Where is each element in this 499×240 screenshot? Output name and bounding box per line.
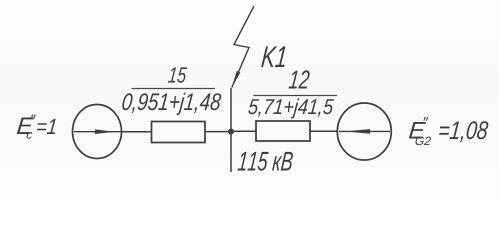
label K1 — [261, 46, 285, 67]
wire W4: resistor Z2 to source G2 — [310, 130, 338, 132]
label Ec E — [17, 117, 34, 134]
label EG2 prime — [424, 117, 429, 121]
short-circuit lightning arrow K1 — [232, 6, 255, 88]
label Ec sub c — [27, 132, 33, 139]
resistor Z1 — [152, 122, 206, 143]
label EG2 E — [409, 122, 426, 139]
wire W3: node K1 to resistor Z2 — [231, 130, 256, 132]
value Z1 fraction bar — [132, 88, 216, 90]
label Ec prime — [31, 115, 36, 119]
label EG2 =1,08 — [439, 121, 488, 142]
value Z1 numerator 15 — [168, 67, 187, 82]
source Ec (system equivalent) — [73, 105, 122, 159]
wire W1: source Ec to resistor Z1 — [121, 131, 152, 133]
label EG2 sub G2 — [415, 137, 431, 146]
bus label 115 kV — [237, 152, 292, 171]
value Z1 denominator — [122, 93, 221, 115]
resistor Z2 — [256, 121, 310, 141]
source G2 (generator) — [337, 103, 391, 160]
value Z2 fraction bar — [254, 95, 338, 97]
wire W2: resistor Z1 to node K1 — [205, 131, 231, 133]
wire: 115 kV bus vertical — [230, 88, 232, 172]
value Z2 numerator 12 — [288, 70, 309, 88]
value Z2 denominator — [248, 98, 334, 118]
label Ec =1 — [37, 119, 56, 134]
node K1 bus junction — [228, 129, 234, 135]
